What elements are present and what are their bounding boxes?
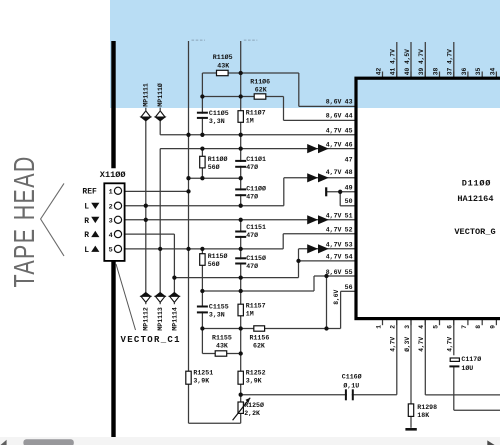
junction (202.4,248.9) — [200, 247, 204, 251]
connector X1100 pin 4 circle — [114, 231, 121, 238]
junction (145.8,205.7) — [144, 204, 148, 208]
svg-text:35: 35 — [475, 68, 482, 76]
arrow down (L play) — [91, 203, 99, 209]
pin 2 tick — [396, 320, 398, 325]
pin 39 tick — [424, 72, 426, 78]
pin 8 tick — [481, 320, 483, 325]
wire pin 50 stub — [340, 205, 356, 207]
junction (202.4,291) — [200, 289, 204, 293]
svg-text:18K: 18K — [417, 412, 429, 419]
wire pin 53 row — [299, 248, 357, 250]
junction (240.7,328.5) — [239, 326, 243, 330]
resistor R1107 1M — [238, 111, 243, 123]
svg-text:VECTOR_G: VECTOR_G — [454, 227, 495, 237]
wire pin 52 row — [283, 233, 356, 235]
wire riser to pin 52 — [282, 234, 284, 249]
junction (240.7,96.5) — [239, 94, 243, 98]
svg-text:8,6V: 8,6V — [326, 98, 342, 105]
svg-text:39: 39 — [418, 68, 425, 76]
svg-text:TAPE HEAD: TAPE HEAD — [9, 155, 41, 287]
signal arrows pin 53 — [307, 244, 318, 253]
wire pin 4 row — [425, 394, 500, 396]
svg-text:C117Ø: C117Ø — [461, 355, 481, 363]
wire pin49-50 tie — [339, 192, 341, 206]
pin 40 tick — [410, 72, 412, 78]
capacitor C1101 470 — [235, 162, 246, 166]
junction (240.7,178.2) — [239, 176, 243, 180]
junction (240.7,73) — [239, 71, 243, 75]
svg-text:4,7V: 4,7V — [390, 337, 397, 352]
svg-text:4,7V: 4,7V — [326, 213, 342, 220]
svg-text:1ØU: 1ØU — [461, 364, 473, 372]
svg-text:47Ø: 47Ø — [246, 163, 258, 171]
svg-text:R1251: R1251 — [193, 369, 213, 376]
svg-text:L: L — [84, 203, 89, 212]
svg-text:62K: 62K — [255, 87, 267, 94]
pin 3 tick — [410, 320, 412, 325]
arrow down (R play) — [91, 217, 99, 223]
svg-text:4,7V: 4,7V — [447, 49, 454, 64]
wire pin 6 drop — [453, 320, 455, 410]
svg-text:43K: 43K — [217, 63, 229, 70]
wire bottom return row — [189, 422, 241, 424]
test point MP1111 diamond — [141, 111, 151, 117]
thick bus upper segment — [111, 41, 115, 168]
svg-text:MP1114: MP1114 — [172, 307, 179, 331]
junction (240.7,205.7) — [239, 204, 243, 208]
svg-text:C11Ø5: C11Ø5 — [209, 109, 229, 117]
wire MP1110 drop — [159, 120, 161, 135]
arrow up (L rec) — [91, 246, 99, 252]
wire R1105 row — [202, 72, 298, 74]
svg-text:53: 53 — [345, 241, 353, 248]
wire connector pin5 row — [121, 248, 284, 250]
svg-text:3,9K: 3,9K — [193, 377, 209, 384]
junction (240.7,394.7) — [239, 393, 243, 397]
svg-text:Ø,3V: Ø,3V — [404, 337, 411, 352]
signal arrows pin 46 — [307, 144, 318, 153]
pin 38 tick — [439, 72, 441, 78]
svg-text:4,7V: 4,7V — [326, 141, 342, 148]
resistor R1155 43K — [215, 351, 227, 356]
wire net rail V3 (REF) — [188, 41, 190, 423]
svg-text:2,2K: 2,2K — [244, 410, 260, 417]
svg-text:C116Ø: C116Ø — [342, 372, 362, 380]
svg-text:38: 38 — [433, 68, 440, 76]
ground — [405, 428, 416, 431]
tape head brace — [41, 183, 64, 256]
svg-text:51: 51 — [345, 213, 353, 220]
pin 36 tick — [467, 72, 469, 78]
svg-text:4: 4 — [109, 232, 113, 240]
junction (188.5,134.8) — [186, 133, 190, 137]
junction (298.5,260.9) — [296, 259, 300, 263]
capacitor C1151 470 — [235, 233, 246, 236]
svg-text:4,7V: 4,7V — [390, 49, 397, 64]
wire pin 44 — [284, 119, 357, 121]
wire MP1111-MP1112 line — [145, 120, 147, 293]
test point MP1110 diamond — [155, 111, 165, 117]
svg-text:48: 48 — [345, 169, 353, 176]
pin 1 tick — [382, 320, 384, 325]
wire rowB — [202, 290, 314, 292]
junction (240.7,277.6) — [239, 275, 243, 279]
test point MP1112 diamond — [141, 293, 151, 297]
svg-text:4,7V: 4,7V — [418, 49, 425, 64]
svg-text:4,5V: 4,5V — [404, 49, 411, 64]
thick bus lower segment — [111, 261, 115, 438]
svg-text:40: 40 — [404, 68, 411, 76]
svg-text:4,7V: 4,7V — [326, 254, 342, 261]
resistor R1100 560 — [200, 156, 205, 168]
wire R1100 branch — [201, 149, 203, 179]
svg-text:MP111Ø: MP111Ø — [156, 83, 164, 107]
wire R1106 row — [202, 96, 283, 98]
wire REF row — [121, 190, 189, 192]
resistor R1106 62K — [254, 94, 266, 99]
pin 6 tick — [453, 320, 455, 325]
svg-text:54: 54 — [345, 254, 353, 261]
svg-text:4,7V: 4,7V — [418, 337, 425, 352]
wire pin 41 line — [396, 42, 398, 77]
wire down to pin 44 — [283, 97, 285, 121]
connector X1100 pin 3 circle — [114, 216, 121, 223]
pin 42 tick — [382, 72, 384, 78]
pin 4 tick — [424, 320, 426, 325]
test point MP1113 diamond — [155, 293, 165, 297]
signal arrows pin 48 — [307, 173, 318, 182]
svg-text:R1155: R1155 — [212, 335, 232, 342]
svg-text:34: 34 — [489, 68, 496, 76]
capacitor C1150 470 — [235, 259, 246, 262]
junction (326.5,276) — [324, 274, 328, 278]
svg-text:56Ø: 56Ø — [208, 260, 220, 268]
svg-text:MP1111: MP1111 — [143, 83, 150, 107]
cursor bottom right — [487, 440, 494, 445]
trimmer R1250 2,2K — [238, 402, 243, 413]
junction (240.7,248.9) — [239, 247, 243, 251]
svg-text:6: 6 — [447, 325, 454, 329]
wire C1150 bottom row — [174, 277, 298, 279]
connector X1100 body — [104, 183, 124, 261]
svg-text:44: 44 — [345, 113, 353, 120]
junction (202.4,148.6) — [200, 146, 204, 150]
wire connector pin4 row — [121, 233, 175, 235]
svg-text:8,6V: 8,6V — [333, 289, 340, 304]
junction (326.5,328.5) — [324, 326, 328, 330]
wire pin 2 drop — [396, 320, 398, 395]
svg-text:41: 41 — [390, 68, 397, 76]
pin 37 tick — [453, 72, 455, 78]
wire riser pin53-54-C1150 — [298, 249, 300, 278]
resistor R1105 43K — [217, 70, 229, 75]
resistor R1252 3,9K — [238, 371, 243, 384]
svg-text:4,7V: 4,7V — [326, 227, 342, 234]
connector X1100 pin 1 circle — [114, 187, 121, 194]
off-page dash at top of net rail — [192, 39, 206, 41]
wire R1155 row — [202, 353, 240, 355]
capacitor C1170 10U (electrolytic) — [449, 355, 461, 365]
svg-text:49: 49 — [345, 184, 353, 191]
svg-text:43: 43 — [345, 98, 353, 105]
svg-text:3: 3 — [404, 325, 411, 329]
svg-text:C11ØØ: C11ØØ — [246, 185, 266, 193]
wire drop pin55 to rowB — [313, 276, 315, 291]
pin 35 tick — [481, 72, 483, 78]
pin 7 tick — [467, 320, 469, 325]
svg-text:46: 46 — [345, 141, 353, 148]
wire net rail V4 upper — [240, 41, 242, 206]
wire pin 55 row — [314, 275, 356, 277]
svg-text:37: 37 — [447, 68, 454, 76]
op-amp IC D1100 outline — [356, 78, 500, 318]
svg-text:X11ØØ: X11ØØ — [100, 170, 126, 180]
svg-text:56: 56 — [345, 284, 353, 291]
svg-text:62K: 62K — [253, 343, 265, 350]
svg-text:C1151: C1151 — [246, 224, 266, 231]
svg-text:8,6V: 8,6V — [326, 269, 342, 276]
svg-text:R11Ø5: R11Ø5 — [213, 53, 233, 61]
pin 41 tick — [396, 72, 398, 78]
svg-text:4,7V: 4,7V — [326, 128, 342, 135]
svg-text:R115Ø: R115Ø — [208, 252, 228, 260]
svg-text:8: 8 — [475, 325, 482, 329]
junction (174.4,277.6) — [172, 275, 176, 279]
svg-text:50: 50 — [345, 198, 353, 205]
test point MP1114 diamond — [170, 293, 180, 297]
capacitor C1100 470 — [235, 190, 246, 194]
wire pin 51 row — [121, 219, 356, 221]
resistor R1157 1M — [238, 304, 243, 316]
connector X1100 pin 5 circle — [114, 245, 121, 252]
svg-text:1: 1 — [109, 188, 113, 196]
pin 9 tick — [495, 320, 497, 325]
resistor R1156 62K — [254, 326, 265, 331]
svg-text:R1157: R1157 — [246, 303, 266, 310]
junction (240.7,134.8) — [239, 133, 243, 137]
svg-text:4,7V: 4,7V — [326, 169, 342, 176]
connector X1100 pin 2 circle — [114, 202, 121, 209]
wire pin 56 row — [341, 290, 356, 292]
svg-text:5: 5 — [433, 325, 440, 329]
wire pin 43 — [299, 105, 356, 107]
svg-text:47: 47 — [345, 156, 353, 163]
wire drop pin56 — [340, 291, 342, 328]
svg-text:REF: REF — [82, 188, 97, 197]
wire pin 39 line — [424, 42, 426, 77]
wire R1150-C1155 branch — [201, 249, 203, 354]
svg-text:42: 42 — [376, 68, 383, 76]
wire drop 55 to R1156 row — [326, 276, 328, 329]
wire down to pin 43 — [298, 73, 300, 106]
svg-text:R1252: R1252 — [246, 369, 266, 376]
svg-text:3,3N: 3,3N — [209, 118, 225, 125]
junction (240.7,219.8) — [239, 218, 243, 222]
wire pin 45 row — [160, 134, 356, 136]
svg-text:36: 36 — [461, 68, 468, 76]
junction (160.2,248.9) — [158, 247, 162, 251]
scrollbar left arrow — [1, 440, 7, 445]
svg-text:L: L — [84, 246, 89, 255]
svg-text:1: 1 — [376, 325, 383, 329]
wire MP1114 drop — [173, 234, 175, 292]
wire pin 37 line — [453, 42, 455, 77]
svg-text:56Ø: 56Ø — [208, 163, 220, 171]
resistor R1251 3,9K — [186, 371, 191, 384]
wire C1105 branch — [201, 73, 203, 135]
wire MP1113 riser — [159, 149, 161, 293]
svg-text:R1298: R1298 — [417, 404, 437, 411]
pointer line VECTOR_C1 — [116, 264, 136, 330]
junction (202.4,178.2) — [200, 176, 204, 180]
svg-text:4: 4 — [418, 325, 425, 329]
svg-text:2: 2 — [390, 325, 397, 329]
svg-text:MP1113: MP1113 — [157, 307, 164, 331]
arrow up (R rec) — [91, 231, 99, 237]
junction (145.8,219.8) — [144, 218, 148, 222]
svg-text:R11Ø6: R11Ø6 — [250, 77, 270, 85]
svg-text:3,3N: 3,3N — [209, 311, 225, 318]
terminator bar pin 49 — [325, 187, 327, 196]
resistor R1150 560 — [200, 254, 205, 266]
signal arrows pin 51 — [307, 215, 318, 224]
svg-text:C11Ø1: C11Ø1 — [246, 155, 266, 163]
junction (202.4,96.5) — [200, 94, 204, 98]
svg-text:C115Ø: C115Ø — [246, 254, 266, 262]
wire R1156 row — [202, 328, 340, 330]
svg-text:2: 2 — [109, 203, 113, 211]
svg-text:1M: 1M — [246, 311, 254, 318]
svg-text:47Ø: 47Ø — [246, 262, 258, 270]
svg-text:55: 55 — [345, 269, 353, 276]
svg-text:R125Ø: R125Ø — [244, 401, 264, 409]
wire pin 49 stub — [326, 191, 356, 193]
wire net rail V4 lower — [240, 220, 242, 423]
svg-text:4,7V: 4,7V — [447, 337, 454, 352]
capacitor C1105 3,3N — [197, 114, 208, 117]
svg-text:47Ø: 47Ø — [246, 192, 258, 200]
wire pin 48 row — [284, 177, 356, 179]
resistor R1298 18K — [408, 404, 413, 417]
svg-text:1M: 1M — [246, 117, 254, 124]
svg-text:4,7V: 4,7V — [326, 241, 342, 248]
wire pin 3 drop — [410, 320, 412, 428]
junction (188.5,248.9) — [186, 247, 190, 251]
wire connector pin2 row — [121, 205, 284, 207]
wire C1160 row — [241, 394, 397, 396]
svg-text:3: 3 — [109, 218, 113, 226]
svg-text:52: 52 — [345, 227, 353, 234]
svg-text:R11Ø7: R11Ø7 — [246, 108, 266, 116]
svg-text:HA12164: HA12164 — [457, 194, 493, 204]
svg-text:47Ø: 47Ø — [246, 231, 258, 239]
wire pin 46 row — [160, 148, 356, 150]
wire pin 6 row — [454, 409, 500, 411]
svg-text:45: 45 — [345, 128, 353, 135]
svg-text:VECTOR_C1: VECTOR_C1 — [121, 335, 181, 345]
svg-text:R11ØØ: R11ØØ — [208, 155, 228, 163]
svg-text:Ø,1U: Ø,1U — [343, 381, 359, 389]
wire riser to pin 48 — [283, 178, 285, 206]
junction (188.5,178.2) — [186, 176, 190, 180]
svg-text:MP1112: MP1112 — [143, 307, 150, 331]
svg-text:C1155: C1155 — [209, 303, 229, 310]
junction (202.4,134.8) — [200, 133, 204, 137]
wire pin 4 drop — [424, 320, 426, 395]
svg-text:D11ØØ: D11ØØ — [462, 178, 491, 188]
svg-text:5: 5 — [109, 247, 113, 255]
junction (340.2,191.8) — [338, 190, 342, 194]
svg-text:R: R — [84, 231, 89, 240]
wire pin 40 line — [410, 42, 412, 77]
wire R1100 bottom row — [189, 177, 241, 179]
capacitor C1160 0,1U — [347, 389, 352, 400]
junction (240.7,148.6) — [239, 146, 243, 150]
svg-text:9: 9 — [489, 325, 496, 329]
blue highlight band — [110, 0, 500, 108]
svg-text:R: R — [84, 217, 89, 226]
junction (240.7,353.5) — [239, 351, 243, 355]
junction (202.4,328.5) — [200, 326, 204, 330]
junction (240.7,291) — [239, 289, 243, 293]
wire pin 54 row — [299, 260, 357, 262]
pin 34 tick — [495, 72, 497, 78]
svg-text:7: 7 — [461, 325, 468, 329]
capacitor C1155 3,3N — [197, 308, 208, 312]
junction (188.5,191.4) — [186, 189, 190, 193]
svg-text:43K: 43K — [216, 343, 228, 350]
off-page dash at top of net rail — [244, 39, 257, 41]
svg-text:3,9K: 3,9K — [246, 377, 262, 384]
svg-text:8,6V: 8,6V — [326, 113, 342, 120]
scrollbar track — [0, 437, 500, 445]
svg-text:R1156: R1156 — [250, 335, 270, 342]
pin 5 tick — [439, 320, 441, 325]
scrollbar thumb — [23, 439, 73, 445]
